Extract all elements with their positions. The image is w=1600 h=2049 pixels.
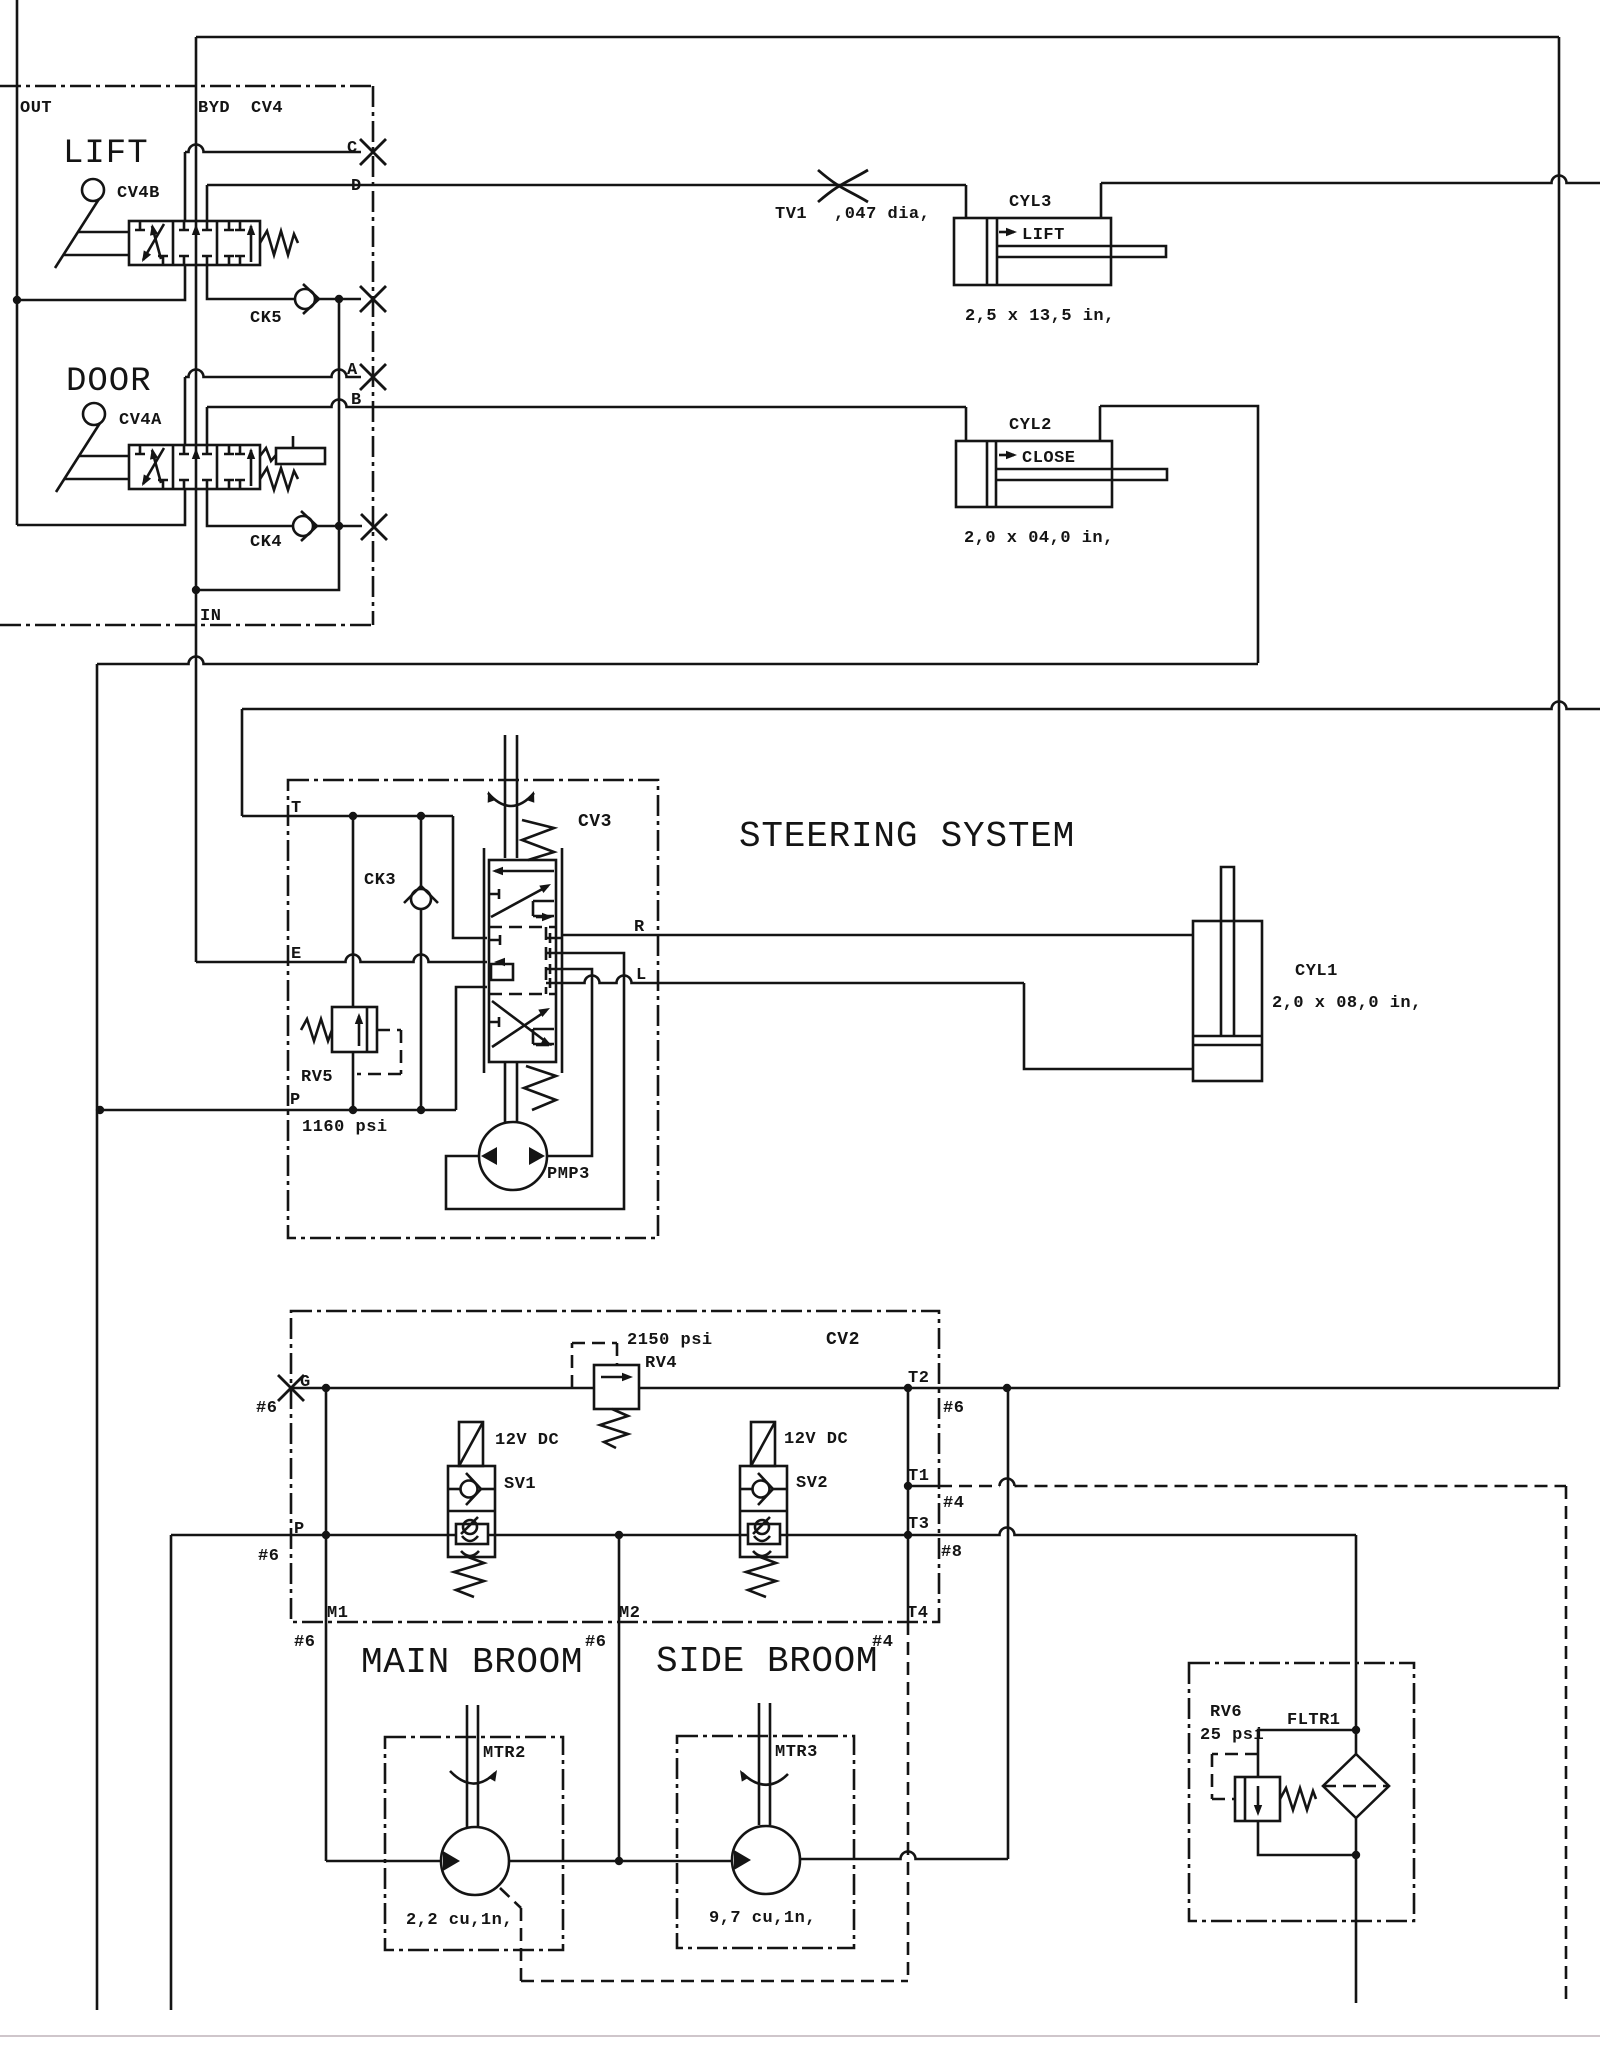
wire CK5 junction to plug <box>339 298 361 301</box>
port label T4 <box>907 1604 928 1623</box>
svg-text:T: T <box>291 799 302 818</box>
wire P T3 line <box>171 1528 1356 1536</box>
check valve CK5 <box>295 284 319 314</box>
svg-text:#8: #8 <box>941 1543 962 1562</box>
svg-text:#4: #4 <box>943 1494 964 1513</box>
port label T1 <box>908 1467 929 1486</box>
wire tank line <box>242 702 1600 709</box>
svg-text:#6: #6 <box>256 1399 277 1418</box>
label 12V DC for SV2 <box>784 1430 848 1449</box>
wire E line <box>196 955 487 962</box>
wire filter bypass upper <box>1258 1730 1356 1777</box>
junction P at M2 <box>615 1531 623 1539</box>
svg-text:CYL2: CYL2 <box>1009 416 1052 435</box>
component label CYL3 <box>1009 193 1052 212</box>
hydraulic motor MTR3 <box>732 1826 800 1894</box>
svg-text:STEERING SYSTEM: STEERING SYSTEM <box>739 816 1075 857</box>
wire port A <box>184 377 187 445</box>
svg-text:D: D <box>351 177 362 196</box>
wire CV4A right port to CK4 <box>207 489 339 526</box>
motor MTR2 rotation arrow <box>450 1770 497 1784</box>
wire RV5 branch lower <box>352 1052 355 1108</box>
junction T2 at motor return <box>1003 1384 1011 1392</box>
wire P branch down-left <box>170 1535 173 2010</box>
port label A <box>347 361 358 380</box>
pilot line of RV6 <box>1212 1754 1258 1799</box>
wire T rail inside CV2 <box>907 1388 910 1622</box>
svg-text:P: P <box>294 1520 305 1539</box>
size label #6 at T2 <box>943 1399 964 1418</box>
svg-text:2,0 x 08,0 in,: 2,0 x 08,0 in, <box>1272 994 1422 1013</box>
filter FLTR1 <box>1323 1754 1389 1818</box>
component label CV4A <box>119 411 162 430</box>
wire R line <box>562 934 1193 937</box>
check valve CK4 <box>293 511 317 541</box>
svg-text:T3: T3 <box>908 1515 929 1534</box>
cylinder CYL3 <box>954 218 1166 285</box>
svg-text:CV4B: CV4B <box>117 184 160 203</box>
port label P steering <box>290 1091 301 1110</box>
svg-text:CYL1: CYL1 <box>1295 962 1338 981</box>
svg-text:CYL3: CYL3 <box>1009 193 1052 212</box>
svg-text:CK3: CK3 <box>364 871 396 890</box>
plugged port X on CK5 line <box>360 286 386 312</box>
hydraulic motor MTR2 <box>441 1827 509 1895</box>
svg-text:L: L <box>636 966 647 985</box>
svg-text:MTR3: MTR3 <box>775 1743 818 1762</box>
port label G <box>300 1373 311 1392</box>
junction P at left rail <box>96 1106 104 1114</box>
relief valve RV4 <box>594 1365 639 1448</box>
size label #6 at G <box>256 1399 277 1418</box>
svg-text:T4: T4 <box>907 1604 928 1623</box>
dash-dot enclosure CV4 right edge <box>372 86 375 625</box>
wire CV4A left port to OUT bottom <box>17 489 185 525</box>
value label 9,7 cu,in, <box>709 1909 816 1928</box>
component label CK3 <box>364 871 396 890</box>
svg-text:12V DC: 12V DC <box>495 1431 559 1450</box>
svg-text:RV5: RV5 <box>301 1068 333 1087</box>
plugged port X at A <box>360 364 386 390</box>
svg-text:LIFT: LIFT <box>1022 226 1065 245</box>
value label 2,0 x 08,0 in, <box>1272 994 1422 1013</box>
junction T rail at RV5 <box>349 812 357 820</box>
wire left rail down to sheet edge <box>96 664 99 2010</box>
valve CV4B body <box>129 221 298 265</box>
dash-dot enclosure MTR2 <box>385 1737 563 1950</box>
port label T <box>291 799 302 818</box>
plugged port X on CK4 line <box>361 514 387 540</box>
wire valve to pump outer loop <box>446 953 624 1209</box>
wire CYL3 to right edge <box>1101 176 1600 183</box>
junction T2 at rail <box>904 1384 912 1392</box>
svg-text:#6: #6 <box>294 1633 315 1652</box>
title STEERING SYSTEM <box>739 816 1075 857</box>
junction G at M1 riser <box>322 1384 330 1392</box>
port label T3 <box>908 1515 929 1534</box>
cylinder CYL1 <box>1193 867 1262 1081</box>
wire case drain dashed <box>500 1888 908 1981</box>
plugged port X at C <box>360 139 386 165</box>
svg-text:CV4: CV4 <box>251 99 283 118</box>
junction P at CK3 <box>417 1106 425 1114</box>
component label SV2 <box>796 1474 828 1493</box>
svg-text:SV2: SV2 <box>796 1474 828 1493</box>
wire T rail <box>242 815 453 818</box>
wire T rail to valve <box>453 816 487 938</box>
wire valve to pump right <box>547 969 592 1156</box>
wire motor return riser to T2 <box>1007 1388 1010 1859</box>
steering column <box>505 735 517 858</box>
svg-text:2,0 x 04,0 in,: 2,0 x 04,0 in, <box>964 529 1114 548</box>
scanner edge artifact line <box>0 2035 1600 2037</box>
wire T3 to filter <box>1355 1535 1358 1754</box>
component label TV1 <box>775 205 807 224</box>
direction arrow CLOSE <box>999 449 1076 468</box>
wire motor supply line <box>326 1860 441 1863</box>
component label MTR3 <box>775 1743 818 1762</box>
svg-text:P: P <box>290 1091 301 1110</box>
svg-text:IN: IN <box>200 607 221 626</box>
junction T rail at CK3 <box>417 812 425 820</box>
wire tank line drop to T <box>241 709 244 816</box>
wire CK3 branch <box>420 816 423 1108</box>
wire port D <box>206 185 209 221</box>
size label #4 at T1 <box>943 1494 964 1513</box>
relief valve RV5 <box>301 1007 377 1052</box>
wire CYL2 right port <box>1099 406 1102 441</box>
component label PMP3 <box>547 1165 590 1184</box>
size label #8 at T3 <box>941 1543 962 1562</box>
value label 25 psi <box>1200 1726 1264 1745</box>
svg-text:SV1: SV1 <box>504 1475 536 1494</box>
motor MTR2 shaft <box>467 1705 478 1828</box>
port label E <box>291 945 302 964</box>
svg-text:#6: #6 <box>258 1547 279 1566</box>
size label #6 at M1 <box>294 1633 315 1652</box>
wire CYL2 return to left rail <box>97 657 1258 664</box>
svg-text:MAIN BROOM: MAIN BROOM <box>361 1642 583 1683</box>
wire M1 riser <box>325 1388 328 1861</box>
svg-text:,047 dia,: ,047 dia, <box>834 205 930 224</box>
wire filter outlet <box>1355 1818 1358 2003</box>
port label L <box>636 966 647 985</box>
component label RV5 <box>301 1068 333 1087</box>
wire BYD bypass line (top corner to steering E port corner) <box>195 37 198 962</box>
wire T1 dashed drop <box>1565 1486 1568 2005</box>
spring above CV3 <box>522 820 554 860</box>
svg-text:BYD: BYD <box>198 99 230 118</box>
wire motor line mid <box>509 1860 732 1863</box>
check valve CK3 <box>404 886 438 909</box>
wire CV4B left port to OUT <box>17 265 185 300</box>
wire into CYL3 left port <box>965 185 968 218</box>
port label D <box>351 177 362 196</box>
valve CV3 body <box>484 848 562 1073</box>
value label 1160 psi <box>302 1118 388 1137</box>
wire right vertical to T2 <box>1558 37 1561 1387</box>
dash-dot enclosure MTR3 <box>677 1736 854 1948</box>
wire T4 drain dashed <box>907 1622 910 1981</box>
svg-text:C: C <box>347 139 358 158</box>
svg-text:RV4: RV4 <box>645 1354 677 1373</box>
wire port C <box>184 152 187 221</box>
component label FLTR1 <box>1287 1711 1341 1730</box>
component label CV2 <box>826 1330 860 1350</box>
wire M2 riser <box>618 1535 621 1861</box>
component label MTR2 <box>483 1744 526 1763</box>
svg-text:CV2: CV2 <box>826 1330 860 1350</box>
svg-text:DOOR: DOOR <box>66 363 152 401</box>
svg-text:CLOSE: CLOSE <box>1022 449 1076 468</box>
svg-text:1160 psi: 1160 psi <box>302 1118 388 1137</box>
svg-text:CK5: CK5 <box>250 309 282 328</box>
dash-dot enclosure CV2 <box>291 1311 939 1622</box>
component label CV3 <box>578 812 612 832</box>
port label C <box>347 139 358 158</box>
svg-text:A: A <box>347 361 358 380</box>
svg-text:T1: T1 <box>908 1467 929 1486</box>
component label CK4 <box>250 533 282 552</box>
metering pump PMP3 <box>479 1122 547 1190</box>
motor MTR3 shaft <box>759 1703 770 1825</box>
lever of CV4A <box>56 403 129 492</box>
dash-dot enclosure CV3 <box>288 780 658 1238</box>
svg-text:LIFT: LIFT <box>63 135 149 173</box>
size label #6 at P <box>258 1547 279 1566</box>
section label LIFT <box>63 135 149 173</box>
svg-text:M1: M1 <box>327 1604 348 1623</box>
svg-text:#6: #6 <box>585 1633 606 1652</box>
svg-text:CV4A: CV4A <box>119 411 162 430</box>
wire A to plug <box>185 370 361 377</box>
wire filter bypass lower <box>1258 1821 1356 1855</box>
port label T2 <box>908 1369 929 1388</box>
wire G line to RV4 <box>291 1387 594 1390</box>
pilot line of RV4 <box>572 1343 617 1388</box>
wire top loop horizontal <box>196 36 1559 39</box>
label 12V DC for SV1 <box>495 1431 559 1450</box>
svg-text:2,5 x 13,5 in,: 2,5 x 13,5 in, <box>965 307 1115 326</box>
component label CV4 <box>251 99 283 118</box>
valve CV4A body <box>129 436 325 490</box>
wire T1 dashed return <box>939 1479 1566 1486</box>
junction IN at bypass <box>192 586 200 594</box>
port label R <box>634 918 645 937</box>
wire P rail <box>100 1109 456 1112</box>
dash-dot enclosure FLTR1 <box>1189 1663 1414 1921</box>
svg-text:25 psi: 25 psi <box>1200 1726 1264 1745</box>
port label OUT <box>20 99 52 118</box>
wire CK4 junction to plug <box>339 525 362 528</box>
svg-text:R: R <box>634 918 645 937</box>
lever of CV4B <box>55 179 129 268</box>
svg-text:FLTR1: FLTR1 <box>1287 1711 1341 1730</box>
wire CYL3 right port <box>1100 183 1103 218</box>
wire RV5 branch upper <box>352 816 355 1007</box>
value label 2,2 cu,in, <box>406 1911 513 1930</box>
steering wheel rotation arrows <box>488 791 535 806</box>
svg-text:2,2 cu,1n,: 2,2 cu,1n, <box>406 1911 513 1930</box>
junction on OUT line <box>13 296 21 304</box>
svg-text:RV6: RV6 <box>1210 1703 1242 1722</box>
junction filter outlet <box>1352 1851 1360 1859</box>
wire port B <box>206 407 209 445</box>
wire into CYL2 left port <box>965 407 968 441</box>
svg-text:TV1: TV1 <box>775 205 807 224</box>
wire T1 stub <box>908 1485 939 1488</box>
svg-text:E: E <box>291 945 302 964</box>
port X at G <box>278 1375 304 1401</box>
title SIDE BROOM <box>656 1641 878 1682</box>
component label CV4B <box>117 184 160 203</box>
wire L drop to CYL1 <box>1024 983 1193 1069</box>
svg-text:OUT: OUT <box>20 99 52 118</box>
size label #4 at T4 <box>872 1633 893 1652</box>
pilot line of RV5 <box>357 1030 401 1074</box>
wire P rail riser to valve <box>456 987 487 1110</box>
dash-dot enclosure CV4 bottom edge <box>0 624 373 627</box>
junction P at T rail <box>904 1531 912 1539</box>
title MAIN BROOM <box>361 1642 583 1683</box>
wire CYL2 return loop <box>1100 406 1258 663</box>
value label ,047 dia, <box>834 205 930 224</box>
junction M2 at motor line <box>615 1857 623 1865</box>
wire motor line to return riser <box>800 1852 1008 1859</box>
svg-text:PMP3: PMP3 <box>547 1165 590 1184</box>
port label M2 <box>619 1604 640 1623</box>
svg-text:MTR2: MTR2 <box>483 1744 526 1763</box>
section label DOOR <box>66 363 152 401</box>
solenoid valve SV1 <box>448 1422 495 1597</box>
component label CK5 <box>250 309 282 328</box>
svg-text:#6: #6 <box>943 1399 964 1418</box>
solenoid valve SV2 <box>740 1422 787 1597</box>
wire T2 line <box>639 1387 1559 1390</box>
motor MTR3 rotation arrow <box>740 1770 788 1785</box>
svg-text:CV3: CV3 <box>578 812 612 832</box>
wire L line <box>562 976 1024 983</box>
steering column lower <box>505 1062 517 1122</box>
component label CYL2 <box>1009 416 1052 435</box>
spring below CV3 <box>524 1066 556 1110</box>
component label SV1 <box>504 1475 536 1494</box>
dash-dot enclosure CV4 top edge <box>0 85 373 88</box>
flow restrictor TV1 <box>818 170 868 202</box>
cylinder CYL2 <box>956 441 1167 507</box>
junction filter inlet <box>1352 1726 1360 1734</box>
value label 2,0 x 04,0 in, <box>964 529 1114 548</box>
component label RV4 <box>645 1354 677 1373</box>
wire C to plug <box>185 145 361 152</box>
port label M1 <box>327 1604 348 1623</box>
svg-text:T2: T2 <box>908 1369 929 1388</box>
svg-text:12V DC: 12V DC <box>784 1430 848 1449</box>
wire OUT vertical line at left <box>16 0 19 525</box>
size label #6 at M2 <box>585 1633 606 1652</box>
svg-text:SIDE BROOM: SIDE BROOM <box>656 1641 878 1682</box>
port label IN <box>200 607 221 626</box>
value label 2150 psi <box>627 1331 713 1350</box>
svg-text:CK4: CK4 <box>250 533 282 552</box>
port label B <box>351 391 362 410</box>
junction P at M1 <box>322 1531 330 1539</box>
wire B line to CYL2 <box>207 400 966 407</box>
net label BYD <box>198 99 230 118</box>
wire check-valve junction rail <box>196 299 339 590</box>
junction at CK5 line <box>335 295 343 303</box>
value label 2,5 x 13,5 in, <box>965 307 1115 326</box>
relief valve RV6 <box>1235 1777 1316 1821</box>
wire D line to TV1 and CYL3 <box>207 184 966 187</box>
component label CYL1 <box>1295 962 1338 981</box>
svg-text:M2: M2 <box>619 1604 640 1623</box>
direction arrow LIFT <box>999 226 1065 245</box>
svg-text:9,7 cu,1n,: 9,7 cu,1n, <box>709 1909 816 1928</box>
component label RV6 <box>1210 1703 1242 1722</box>
junction T1 <box>904 1482 912 1490</box>
port label P <box>294 1520 305 1539</box>
junction at CK4 line <box>335 522 343 530</box>
wire CV4B right port to CK5 <box>207 265 339 299</box>
svg-text:B: B <box>351 391 362 410</box>
junction P at RV5 <box>349 1106 357 1114</box>
svg-text:2150 psi: 2150 psi <box>627 1331 713 1350</box>
